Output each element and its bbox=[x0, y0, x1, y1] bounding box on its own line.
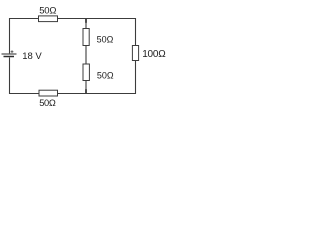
resistor R4 100 ohm (right branch, vertical box) bbox=[132, 46, 138, 61]
resistor R2 50 ohm (middle branch upper, vertical box) bbox=[83, 29, 89, 46]
resistor R2 value label 50 ohm bbox=[97, 34, 114, 44]
svg-text:18 V: 18 V bbox=[22, 51, 42, 62]
battery B1 bottom plate (short, thick, negative) bbox=[4, 56, 15, 58]
svg-text:100Ω: 100Ω bbox=[142, 49, 166, 60]
svg-text:50Ω: 50Ω bbox=[39, 6, 56, 17]
battery B1 plus sign bbox=[11, 50, 14, 53]
wire middle branch vertical bbox=[85, 19, 87, 94]
resistor R5 value label 50 ohm bbox=[39, 98, 56, 108]
resistor R3 value label 50 ohm bbox=[97, 70, 114, 80]
wire bottom horizontal bbox=[10, 93, 136, 95]
svg-text:50Ω: 50Ω bbox=[39, 98, 56, 108]
battery B1 value label 18 V bbox=[22, 51, 42, 62]
wire right vertical bbox=[135, 18, 137, 94]
wire left upper (top corner down to battery) bbox=[9, 18, 11, 53]
svg-text:50Ω: 50Ω bbox=[97, 70, 114, 80]
node B junction tick (middle branch at bottom wire) bbox=[85, 89, 87, 94]
resistor R1 50 ohm (top wire, horizontal box) bbox=[39, 16, 58, 22]
node A junction tick (middle branch at top wire) bbox=[85, 18, 87, 23]
svg-text:50Ω: 50Ω bbox=[97, 34, 114, 44]
wire top horizontal bbox=[10, 18, 136, 20]
resistor R5 50 ohm (bottom wire, horizontal box) bbox=[39, 90, 58, 96]
resistor R4 value label 100 ohm bbox=[142, 49, 166, 60]
wire left lower (battery down to bottom corner) bbox=[9, 58, 11, 95]
resistor R3 50 ohm (middle branch lower, vertical box) bbox=[83, 64, 89, 81]
battery B1 top plate (long, positive) bbox=[2, 53, 17, 55]
resistor R1 value label 50 ohm bbox=[39, 6, 56, 17]
